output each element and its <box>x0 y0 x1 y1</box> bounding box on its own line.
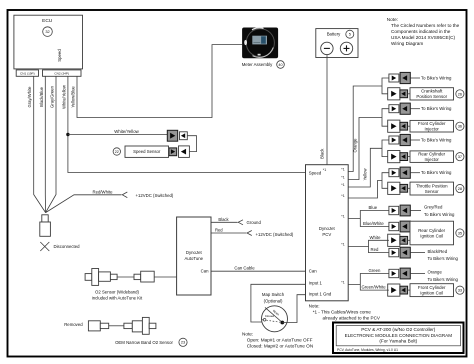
svg-text:Green/White: Green/White <box>362 285 387 290</box>
svg-text:Crankshaft: Crankshaft <box>421 89 443 94</box>
svg-text:*1: *1 <box>341 194 344 198</box>
svg-text:Injector: Injector <box>424 127 439 132</box>
svg-text:To Bike's Wiring: To Bike's Wiring <box>421 106 452 111</box>
svg-text:23: 23 <box>181 340 185 345</box>
svg-text:Can: Can <box>309 268 317 273</box>
svg-text:Meter Assembly: Meter Assembly <box>242 62 273 67</box>
svg-text:Components indicated in the: Components indicated in the <box>391 29 451 34</box>
svg-text:Speed: Speed <box>309 170 322 175</box>
svg-text:*1: *1 <box>341 243 344 247</box>
svg-text:Red/White: Red/White <box>92 189 113 194</box>
svg-text:AutoTune: AutoTune <box>185 256 204 261</box>
svg-text:Gray/Green: Gray/Green <box>50 85 55 108</box>
svg-text:To Bike's Wiring: To Bike's Wiring <box>428 256 459 261</box>
svg-text:36: 36 <box>458 124 462 129</box>
svg-text:26: 26 <box>458 91 462 96</box>
svg-text:White: White <box>370 235 382 240</box>
svg-text:*1: *1 <box>341 168 344 172</box>
svg-text:Closed: Closed <box>265 314 275 318</box>
svg-text:Red: Red <box>215 228 223 233</box>
svg-text:Orange: Orange <box>352 138 357 153</box>
svg-text:already attached to the PCV: already attached to the PCV <box>323 316 381 321</box>
svg-text:Battery: Battery <box>327 32 341 37</box>
svg-text:Black: Black <box>218 217 229 222</box>
svg-text:O2 Sensor (Wideband): O2 Sensor (Wideband) <box>95 289 140 294</box>
svg-text:*1: *1 <box>341 215 344 219</box>
svg-text:Disconnected: Disconnected <box>54 244 81 249</box>
svg-text:Front Cylinder: Front Cylinder <box>418 121 446 126</box>
svg-text:PCV, AutoTune, Modules, Wiring: PCV, AutoTune, Modules, Wiring, v1.0 U1 <box>337 348 398 352</box>
svg-text:Can: Can <box>201 269 209 274</box>
svg-text:To Bike's Wiring: To Bike's Wiring <box>421 138 452 143</box>
svg-text:USA Model 2014 XVS95CE(C): USA Model 2014 XVS95CE(C) <box>391 35 456 40</box>
svg-text:Grey/Red: Grey/Red <box>424 204 443 209</box>
svg-text:Rear Cylinder: Rear Cylinder <box>418 228 445 233</box>
svg-text:Black/Red: Black/Red <box>428 249 448 254</box>
svg-text:*1: *1 <box>341 176 344 180</box>
svg-text:5: 5 <box>349 32 351 37</box>
svg-text:+12VDC (Switched): +12VDC (Switched) <box>136 193 174 198</box>
svg-text:*1: *1 <box>323 168 326 172</box>
svg-text:To Bike's Wiring: To Bike's Wiring <box>421 76 452 81</box>
svg-text:Note:: Note: <box>309 303 320 308</box>
svg-text:37: 37 <box>458 154 462 159</box>
svg-text:Sensor: Sensor <box>425 189 439 194</box>
svg-text:Throttle Position: Throttle Position <box>416 183 448 188</box>
svg-text:DynoJet: DynoJet <box>186 250 203 255</box>
svg-text:Gray/White: Gray/White <box>27 86 32 108</box>
svg-text:(Optional): (Optional) <box>264 299 283 304</box>
svg-text:CN1 (19P): CN1 (19P) <box>20 71 35 75</box>
svg-text:Input 1: Input 1 <box>309 280 323 285</box>
svg-text:Yellow/Blue: Yellow/Blue <box>70 86 75 108</box>
svg-text:Map Switch: Map Switch <box>262 292 285 297</box>
svg-text:Open: Map#1 or AutoTune OFF: Open: Map#1 or AutoTune OFF <box>247 338 313 343</box>
svg-text:Blue: Blue <box>369 205 378 210</box>
svg-text:Blue/White: Blue/White <box>363 221 384 226</box>
svg-text:(For Yamaha Bolt): (For Yamaha Bolt) <box>379 339 417 344</box>
svg-text:Input 1 Gnd: Input 1 Gnd <box>309 292 332 297</box>
svg-text:Ground: Ground <box>247 220 262 225</box>
svg-text:White/Yellow: White/Yellow <box>61 84 66 109</box>
svg-text:To Bike's Wiring: To Bike's Wiring <box>421 170 452 175</box>
svg-text:Yellow: Yellow <box>362 168 367 181</box>
svg-text:Speed: Speed <box>57 49 62 62</box>
svg-text:Note:: Note: <box>387 17 398 22</box>
svg-text:White/Yellow: White/Yellow <box>114 129 139 134</box>
svg-text:Green: Green <box>369 268 382 273</box>
svg-text:DynoJet: DynoJet <box>319 226 336 231</box>
svg-text:To Bike's Wiring: To Bike's Wiring <box>428 277 459 282</box>
svg-text:OEM Narrow Band O2 Sensor: OEM Narrow Band O2 Sensor <box>115 340 173 345</box>
svg-text:*1 - This Cables/Wires come: *1 - This Cables/Wires come <box>313 310 372 315</box>
svg-text:*1: *1 <box>341 183 344 187</box>
svg-text:Can Cable: Can Cable <box>234 265 255 270</box>
svg-text:Wiring Diagram: Wiring Diagram <box>391 41 423 46</box>
svg-text:Position Sensor: Position Sensor <box>416 94 447 99</box>
svg-text:ECU: ECU <box>42 18 53 24</box>
svg-text:40: 40 <box>278 63 282 67</box>
svg-text:included with AutoTune Kit: included with AutoTune Kit <box>92 295 143 300</box>
svg-text:Note:: Note: <box>242 332 253 337</box>
svg-text:ELECTRONIC MODULES CONNECTION: ELECTRONIC MODULES CONNECTION DIAGRAM <box>345 333 453 338</box>
svg-text:Rear Cylinder: Rear Cylinder <box>418 151 445 156</box>
svg-text:+12VDC (Switched): +12VDC (Switched) <box>256 232 294 237</box>
svg-text:PCV & AT-200 (w/No O2 Controll: PCV & AT-200 (w/No O2 Controller) <box>361 327 436 332</box>
svg-text:CN2 (34P): CN2 (34P) <box>54 71 69 75</box>
svg-text:35: 35 <box>458 230 462 235</box>
svg-text:Front Cylinder: Front Cylinder <box>418 285 446 290</box>
svg-text:*1: *1 <box>341 281 344 285</box>
svg-text:Ignition Coil: Ignition Coil <box>420 291 443 296</box>
svg-text:32: 32 <box>45 29 49 34</box>
svg-text:To Bike's Wiring: To Bike's Wiring <box>424 212 455 217</box>
svg-text:Injector: Injector <box>424 157 439 162</box>
svg-text:Black/Blue: Black/Blue <box>39 86 44 106</box>
svg-text:Closed: Map#2 or AutoTune ON: Closed: Map#2 or AutoTune ON <box>247 343 314 348</box>
svg-text:PCV: PCV <box>322 232 331 237</box>
svg-text:33: 33 <box>458 288 462 293</box>
svg-text:The Circled Numbers refer to t: The Circled Numbers refer to the <box>391 23 460 28</box>
svg-text:28: 28 <box>458 186 462 191</box>
svg-text:Orange: Orange <box>428 270 443 275</box>
svg-text:Red: Red <box>371 247 379 252</box>
svg-text:22: 22 <box>115 150 119 154</box>
svg-text:Speed Sensor: Speed Sensor <box>133 149 161 154</box>
svg-text:Removed: Removed <box>64 322 83 327</box>
svg-text:Black: Black <box>320 148 325 159</box>
svg-text:Ignition Coil: Ignition Coil <box>420 233 443 238</box>
